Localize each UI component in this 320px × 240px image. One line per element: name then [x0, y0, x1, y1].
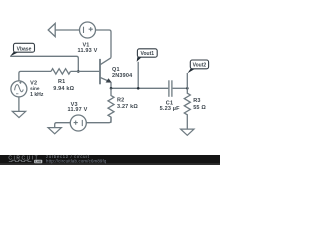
svg-text:5.23 µF: 5.23 µF — [160, 106, 180, 112]
ground (R3) — [181, 129, 194, 135]
sine source V2 — [11, 81, 27, 97]
R3 labels — [193, 98, 206, 111]
svg-text:R1: R1 — [58, 79, 65, 85]
wire C1 right — [173, 87, 188, 89]
wire V2 to ground — [18, 97, 20, 112]
svg-text:sine: sine — [30, 86, 40, 91]
ground (V3) — [48, 128, 61, 134]
R2 labels — [117, 97, 138, 110]
svg-text:Vbase: Vbase — [17, 47, 32, 53]
wire R2 bottom to V3 — [86, 117, 111, 123]
wire Vout2 tap — [186, 73, 188, 88]
V1 value label — [78, 42, 98, 54]
R1 labels — [53, 79, 74, 92]
node flag Vout1 — [137, 49, 158, 62]
svg-text:Vout2: Vout2 — [193, 63, 207, 69]
node flag Vbase — [10, 43, 35, 56]
wire from Vbase flag — [10, 56, 78, 71]
node pin flag (left arrow) — [48, 23, 55, 36]
svg-text:http://circuitlab.com/c6m89fq: http://circuitlab.com/c6m89fq — [46, 159, 107, 164]
wire Vout1 tap — [137, 62, 139, 89]
node flag Vout2 — [188, 60, 209, 73]
wire — [55, 29, 79, 31]
svg-text:2N3904: 2N3904 — [112, 73, 133, 79]
wire emitter down — [110, 82, 112, 88]
capacitor C1 — [169, 80, 172, 97]
watermark text — [46, 154, 107, 163]
wire R1 to base — [71, 70, 100, 72]
svg-text:3.27 kΩ: 3.27 kΩ — [117, 104, 138, 110]
wire — [96, 30, 112, 58]
wire V3 to ground — [55, 123, 71, 128]
V2 labels — [30, 81, 44, 98]
svg-text:Vout1: Vout1 — [141, 51, 155, 57]
V3 labels — [68, 102, 88, 113]
Q1 labels — [112, 67, 133, 79]
svg-text:9.94 kΩ: 9.94 kΩ — [53, 86, 74, 92]
svg-text:11.93 V: 11.93 V — [78, 48, 98, 54]
C1 labels — [160, 100, 180, 112]
emitter rail wire — [111, 87, 168, 89]
wire V2 to base rail — [19, 71, 51, 81]
svg-text:55 Ω: 55 Ω — [193, 105, 206, 111]
CircuitLab logo — [8, 155, 42, 163]
node junction Vout1 — [137, 87, 140, 90]
resistor R3 — [184, 88, 190, 129]
svg-text:11.97 V: 11.97 V — [68, 107, 88, 113]
watermark bar — [0, 155, 220, 165]
resistor R2 — [108, 88, 114, 122]
svg-text:R3: R3 — [193, 98, 200, 104]
voltage source V3 — [70, 115, 86, 131]
ground (V2) — [12, 111, 25, 117]
voltage source V1 — [80, 22, 96, 38]
resistor R1 — [51, 69, 71, 74]
transistor Q1 (NPN 2N3904) — [100, 58, 112, 85]
svg-text:R2: R2 — [117, 97, 124, 103]
node junction Vout2 — [186, 87, 189, 90]
svg-text:1 kHz: 1 kHz — [30, 92, 44, 98]
svg-text:LAB: LAB — [35, 160, 41, 164]
node junction — [77, 70, 80, 73]
node junction emitter — [110, 87, 113, 90]
